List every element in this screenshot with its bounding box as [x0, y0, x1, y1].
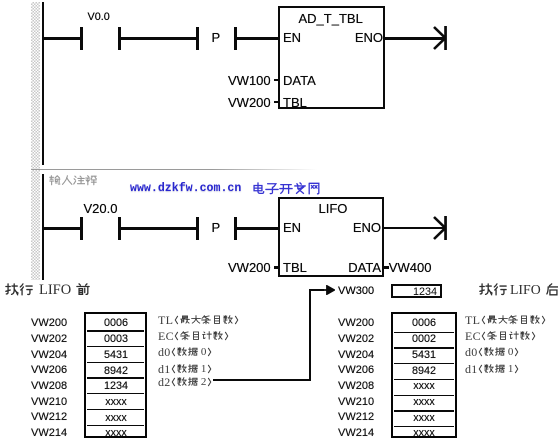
annotation d2 data2 left: [158, 377, 212, 395]
wire P to AD_T_TBL box: [237, 37, 279, 40]
row label VW214 right: [338, 428, 374, 439]
box AD_T_TBL: [278, 6, 385, 109]
row label VW202 right: [338, 334, 374, 345]
cell VW300 value 1234: [391, 284, 442, 298]
row label VW214 left: [31, 428, 67, 439]
wire V20.0 to P net2: [121, 227, 197, 230]
row label VW208 left: [31, 381, 67, 392]
stub VW200 to TBL: [274, 101, 279, 103]
wire ENO out net2: [384, 227, 445, 230]
annotation EC entry count left: [158, 331, 229, 349]
row label VW210 right: [338, 397, 374, 408]
row label VW206 right: [338, 365, 374, 376]
contact V0.0 label: [88, 12, 110, 23]
watermark www.dzkfw.com.cn: [130, 183, 241, 195]
row label VW204 left: [31, 350, 67, 361]
operand VW200 (TBL input net1): [228, 96, 271, 109]
row label VW212 left: [31, 412, 67, 423]
annotation d0 data0 right: [465, 347, 519, 365]
operand VW400: [389, 261, 432, 274]
stub DATA to VW400: [384, 266, 389, 268]
operand VW200 net2: [228, 261, 271, 274]
annotation d0 data0 left: [158, 347, 212, 365]
annotation TL max entries right: [465, 315, 546, 333]
title 执行 LIFO 后: [479, 283, 558, 301]
pin DATA out net2: [343, 261, 381, 274]
wire ENO out net1: [385, 37, 445, 40]
pin TBL net2: [283, 261, 307, 274]
row label VW200 right: [338, 318, 374, 329]
row label VW206 left: [31, 365, 67, 376]
annotation d1 data1 left: [158, 364, 212, 382]
watermark 电子开发网 (blue): [251, 182, 321, 200]
annotation TL max entries left: [158, 315, 239, 333]
contact P (positive edge): [196, 27, 199, 50]
wire rail to V0.0 contact: [44, 37, 81, 40]
label AD_T_TBL: [299, 12, 363, 25]
pin DATA: [283, 74, 316, 87]
contact V0.0: [80, 27, 83, 50]
left margin hatched strip: [31, 2, 40, 280]
right table box: [391, 312, 456, 438]
annotation EC entry count right: [465, 331, 536, 349]
pin ENO net2: [351, 221, 381, 234]
wire V0.0 to P contact: [121, 37, 197, 40]
label LIFO: [319, 202, 348, 215]
left table box: [84, 312, 147, 438]
comment 输入注释 (grey): [49, 175, 97, 193]
contact P net2: [196, 217, 199, 240]
right table rows: [394, 318, 454, 329]
left table rows: [88, 318, 145, 329]
row label VW208 right: [338, 381, 374, 392]
operand VW100: [228, 74, 271, 87]
annotation d1 data1 right: [465, 364, 519, 382]
connector vertical: [309, 289, 311, 381]
pin TBL: [283, 96, 307, 109]
pin ENO: [353, 31, 383, 44]
pin EN: [283, 31, 301, 44]
stub VW200 to TBL net2: [274, 266, 279, 268]
arrow output net2: [431, 214, 451, 242]
connector d2 to VW300: horizontal from d2: [213, 379, 311, 381]
row label VW204 right: [338, 350, 374, 361]
wire rail to V20.0: [44, 227, 81, 230]
title 执行 LIFO 前: [5, 283, 90, 301]
row label VW210 left: [31, 397, 67, 408]
power rail network 1: [42, 2, 45, 165]
power rail network 2: [42, 174, 45, 280]
contact V20.0 label: [84, 202, 118, 215]
stub VW100 to DATA: [274, 79, 279, 81]
row label VW200 left: [31, 318, 67, 329]
arrow output net1: [431, 24, 451, 52]
node VW300: [338, 286, 374, 297]
contact V20.0: [80, 217, 83, 240]
pin EN net2: [283, 221, 301, 234]
network separator line: [31, 169, 323, 171]
row label VW212 right: [338, 412, 374, 423]
box LIFO: [278, 197, 384, 277]
row label VW202 left: [31, 334, 67, 345]
connector arrow to VW300: [311, 289, 324, 291]
wire P to LIFO box: [237, 227, 279, 230]
